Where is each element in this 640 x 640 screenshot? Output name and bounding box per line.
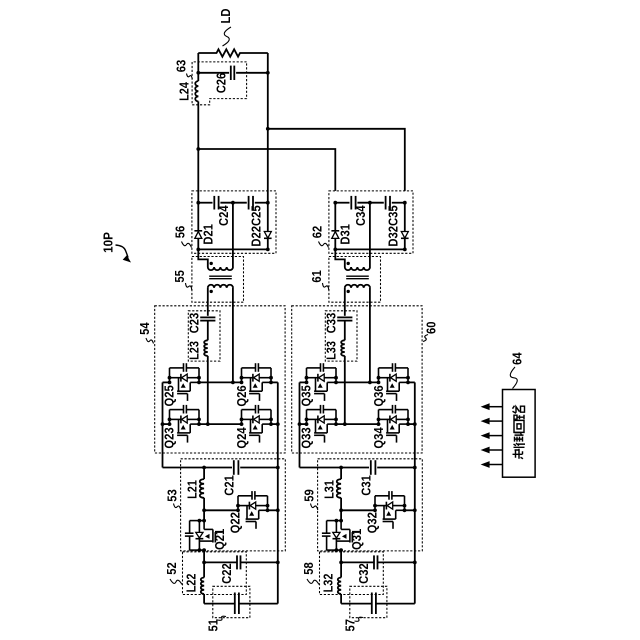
dashed box L33 C33 (resonant tank) (325, 311, 357, 361)
svg-text:D22C25: D22C25 (249, 205, 263, 246)
wire lower rail segments (163, 423, 170, 425)
wire rectifier top bus (198, 202, 212, 204)
svg-text:C31: C31 (360, 475, 374, 496)
transformer T secondary winding (208, 267, 233, 270)
wire bridge left bus (162, 382, 164, 467)
wire right output rail (267, 53, 269, 203)
leader line 62 (319, 242, 329, 248)
leader line 52 (170, 579, 182, 585)
load LD (zigzag) (198, 49, 267, 56)
transformer primary winding (208, 285, 233, 288)
transistor Q22 (236, 491, 269, 529)
transistor Q23 (168, 405, 201, 443)
leader line 64 (510, 367, 517, 389)
wire C to L (207, 321, 209, 341)
dashed box 60 (full bridge) (292, 306, 422, 453)
svg-text:D21: D21 (201, 224, 215, 245)
node dots rectifier top bus (333, 201, 337, 205)
capacitor C26 (230, 66, 232, 80)
leader line 51 (218, 616, 227, 620)
leader line 63 (187, 74, 193, 80)
dashed box 55 (transformer) (192, 257, 244, 303)
svg-text:Q31: Q31 (350, 529, 364, 550)
svg-text:54: 54 (138, 322, 152, 335)
wire chopper top rail (163, 467, 233, 469)
svg-text:Q35: Q35 (299, 385, 313, 406)
wire with capacitor C26 (198, 72, 229, 74)
wire primary right lead down to bridge (369, 288, 371, 383)
svg-text:53: 53 (165, 489, 179, 502)
svg-text:Q23: Q23 (162, 427, 176, 448)
svg-text:Q32: Q32 (366, 512, 380, 533)
svg-text:64: 64 (510, 352, 524, 365)
wire rectifier top bus (335, 202, 349, 204)
wire bottom bus (341, 603, 372, 605)
wire left vertical through diode D31 (334, 203, 336, 231)
wire L down to bridge midpoint rail (207, 356, 209, 424)
svg-text:C22: C22 (220, 563, 234, 584)
phase dot secondary (347, 262, 350, 265)
leader line 61 (323, 283, 329, 290)
svg-text:58: 58 (302, 562, 316, 575)
capacitor C24 (213, 196, 215, 210)
svg-text:L21: L21 (186, 480, 200, 499)
svg-text:C32: C32 (357, 563, 371, 584)
svg-text:51: 51 (206, 619, 220, 632)
svg-text:L23: L23 (187, 341, 201, 360)
transistor Q25 (168, 363, 201, 401)
capacitor 57 (371, 593, 373, 615)
phase dot primary (347, 290, 350, 293)
dashed box 56 (rectifier) (192, 191, 276, 253)
node dots rectifier top bus (196, 201, 200, 205)
wire rectifier bottom bus (198, 248, 267, 250)
transistor Q26 (240, 363, 273, 401)
dashed box L23 C23 (resonant tank) (188, 311, 220, 361)
svg-text:L22: L22 (184, 574, 198, 593)
svg-text:62: 62 (310, 226, 324, 239)
transistor Q21 (185, 519, 223, 552)
svg-text:D32C35: D32C35 (386, 205, 400, 246)
capacitor C31 (370, 460, 372, 475)
wire secondary left lead (jog) (198, 249, 208, 267)
svg-text:60: 60 (424, 321, 438, 334)
leader line 55 (186, 283, 192, 290)
dashed box 52 (input filter) (183, 552, 247, 595)
dashed box 54 (full bridge) (155, 306, 285, 453)
diode D21 (194, 230, 202, 232)
capacitor C32 wire (341, 561, 374, 563)
capacitor C22 wire (204, 561, 237, 563)
leader arrow 10P (116, 245, 129, 258)
control circuit text (kanji strokes) (513, 406, 526, 459)
svg-text:C34: C34 (354, 205, 368, 226)
diode D32 (401, 232, 408, 239)
transistor Q31 (322, 519, 360, 552)
wire switch-node rail (204, 509, 238, 511)
svg-text:L24: L24 (177, 82, 191, 101)
dashed box 58 (input filter) (320, 552, 384, 595)
wire primary left lead (207, 288, 209, 316)
leader line 60 (423, 335, 428, 342)
wire right vertical through diode D22 (267, 203, 269, 232)
inductor L23 (204, 340, 208, 356)
dashed box 61 (transformer) (329, 257, 381, 303)
wire primary left lead (344, 288, 346, 316)
capacitor C22 (236, 555, 238, 569)
wire secondary right lead / center tap vertical (369, 203, 371, 267)
svg-text:L32: L32 (321, 574, 335, 593)
capacitor C33 (337, 316, 352, 318)
capacitor C35 (385, 196, 387, 210)
svg-text:61: 61 (310, 270, 324, 283)
wire rectifier bottom bus (335, 248, 405, 250)
wire secondary right lead / center tap vertical (232, 203, 234, 267)
inductor L31 (340, 468, 342, 480)
transformer core (346, 275, 369, 277)
inductor L21 (203, 468, 205, 480)
wire left vertical through diode D21 (197, 203, 199, 231)
wire L down to bridge midpoint rail (344, 356, 346, 424)
svg-text:Q25: Q25 (162, 385, 176, 406)
leader line LD (223, 27, 232, 46)
wire bridge right bus (414, 382, 416, 603)
dashed box 53 (chopper) (181, 459, 286, 551)
wire cross-tie upper (to 62) (268, 129, 405, 191)
svg-text:L31: L31 (323, 480, 337, 499)
wire bottom bus (204, 603, 235, 605)
dashed box 57 (source) (350, 586, 387, 617)
wire chopper top rail (300, 467, 370, 469)
svg-text:Q26: Q26 (235, 385, 249, 406)
wire right vertical through diode D32 (404, 203, 406, 232)
svg-text:C24: C24 (217, 205, 231, 226)
capacitor C23 (200, 316, 215, 318)
wire bridge right bus (277, 382, 279, 603)
inductor L33 (341, 340, 345, 356)
wire L1 down to switch node (203, 498, 205, 521)
svg-text:D31: D31 (338, 224, 352, 245)
transistor Q34 (377, 405, 410, 443)
wire lower rail segments (300, 423, 307, 425)
wire left output rail (197, 53, 199, 81)
wire upper rail segments (163, 381, 170, 383)
svg-text:C26: C26 (214, 73, 228, 94)
diode D31 (331, 230, 339, 232)
wire below Q1 (203, 550, 205, 562)
svg-text:52: 52 (165, 562, 179, 575)
transistor Q36 (377, 363, 410, 401)
capacitor C34 (350, 196, 352, 210)
wire switch-node rail (341, 509, 375, 511)
svg-text:55: 55 (173, 270, 187, 283)
svg-text:Q34: Q34 (372, 427, 386, 448)
control circuit box 64 (503, 390, 536, 478)
wire upper rail segments (300, 381, 307, 383)
wire primary right lead down to bridge (232, 288, 234, 383)
capacitor C32 (373, 555, 375, 569)
svg-text:59: 59 (302, 489, 316, 502)
inductor L22 (203, 562, 205, 577)
svg-text:C21: C21 (223, 475, 237, 496)
svg-text:C33: C33 (324, 313, 338, 334)
svg-text:C23: C23 (187, 313, 201, 334)
dashed box 63 (output filter) (192, 62, 247, 105)
leader line 53 (174, 504, 181, 511)
svg-text:Q24: Q24 (235, 427, 249, 448)
transistor Q32 (373, 491, 406, 529)
capacitor C25 (248, 196, 250, 210)
leader line 57 (355, 617, 364, 621)
leader line 59 (311, 504, 318, 511)
svg-text:63: 63 (175, 60, 189, 73)
transistor Q35 (305, 363, 338, 401)
wire bridge left bus (299, 382, 301, 467)
phase dot primary (210, 290, 213, 293)
dashed box 51 (source) (213, 586, 250, 617)
diode D22 (264, 232, 271, 239)
transformer primary winding (345, 285, 370, 288)
wire L1 down to switch node (340, 498, 342, 521)
svg-text:Q36: Q36 (372, 385, 386, 406)
leader line 58 (307, 579, 319, 585)
svg-text:LD: LD (218, 9, 233, 24)
control signal arrows (488, 406, 503, 408)
leader line 54 (146, 338, 154, 344)
dashed box 62 (rectifier) (329, 191, 413, 253)
svg-text:Q33: Q33 (299, 427, 313, 448)
transistor Q33 (305, 405, 338, 443)
transformer T secondary winding (345, 267, 370, 270)
wire cross-tie lower (to 62) (198, 149, 335, 191)
svg-text:10P: 10P (100, 232, 115, 253)
capacitor 51 (234, 593, 236, 615)
leader line 56 (182, 242, 192, 248)
dashed box 59 (chopper) (318, 459, 423, 551)
inductor L24 (195, 81, 198, 101)
wire below Q1 (340, 550, 342, 562)
phase dot secondary (210, 262, 213, 265)
wire secondary left lead (jog) (335, 249, 345, 267)
transistor Q24 (240, 405, 273, 443)
svg-text:Q22: Q22 (229, 512, 243, 533)
capacitor C21 (233, 460, 235, 475)
svg-text:L33: L33 (324, 341, 338, 360)
svg-text:Q21: Q21 (213, 529, 227, 550)
inductor L32 (340, 562, 342, 577)
wire C to L (344, 321, 346, 341)
transformer core (209, 275, 232, 277)
svg-text:56: 56 (173, 226, 187, 239)
